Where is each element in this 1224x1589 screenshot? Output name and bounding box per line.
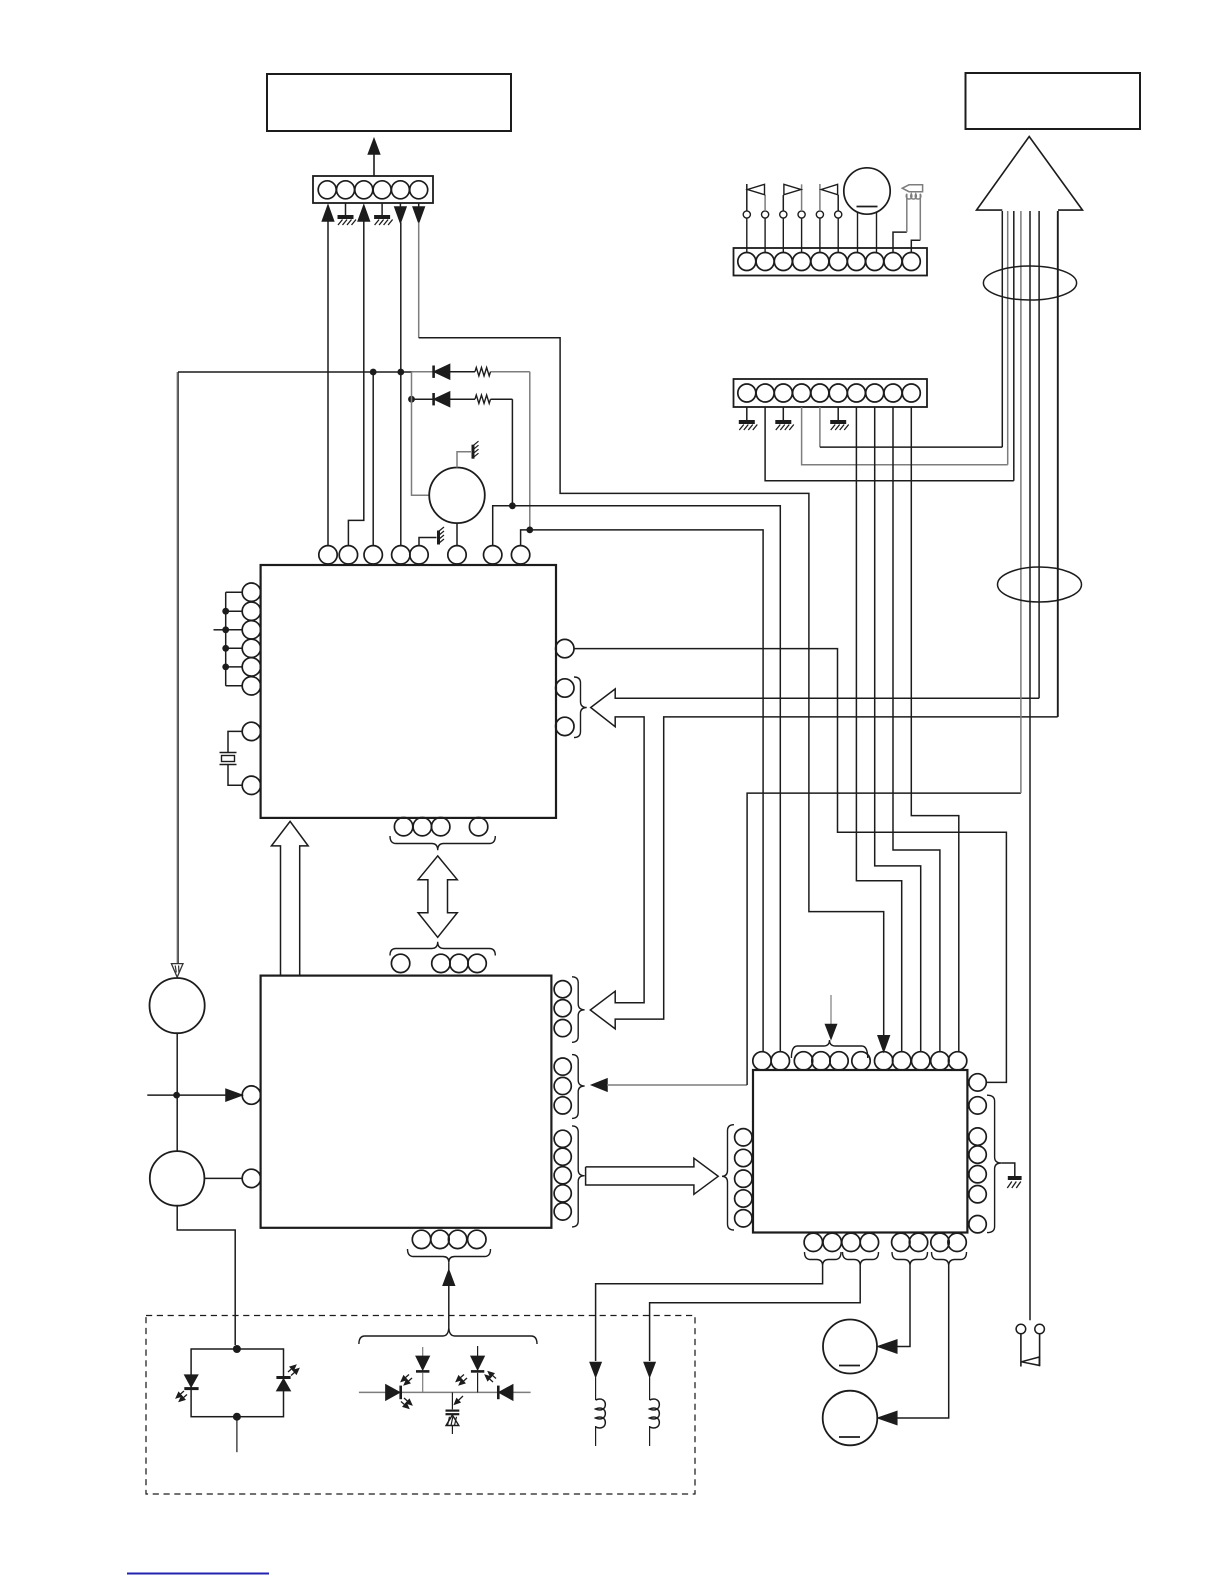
mic pin stems (857, 213, 859, 253)
arrow into coil L3 (644, 1363, 655, 1377)
speaker SP1 (823, 1320, 877, 1374)
junction node B (397, 369, 404, 376)
IC3 right pin R1 (969, 1074, 986, 1091)
ground at IC3 right (1008, 1176, 1022, 1180)
cable tie ellipse 2 (998, 567, 1082, 602)
striped arrow into M1 (171, 964, 183, 978)
feed wire into motor M1 (176, 372, 178, 963)
arrow from connector to display block (373, 154, 375, 176)
CN2 pin4 wire to bus (802, 407, 1008, 465)
wire M2 to LED pair block (177, 1206, 235, 1345)
arrow into SP1 (878, 1340, 897, 1353)
LED D6 (down) (422, 1347, 424, 1357)
IC3 driver IC (753, 1070, 967, 1233)
hollow arrow IC2 to IC1 (271, 821, 308, 975)
CN2 pin6 ground (837, 407, 839, 422)
bus shaft right edge (1057, 211, 1059, 717)
wire group B to bus riser (747, 793, 1021, 1085)
CN1 pin5 signal arrow down (399, 203, 401, 208)
wire CN1 pin5 to IC1 pin T4 (400, 223, 402, 546)
switch S1 contacts (1016, 1324, 1026, 1334)
crystal X1 wiring (228, 731, 242, 752)
key input stub (214, 629, 226, 631)
brace above LED cluster (359, 1327, 537, 1345)
arrow into coil L2 (590, 1363, 601, 1377)
junction at M1-M2 rail (173, 1092, 180, 1099)
brace at IC2 group A (572, 977, 585, 1043)
bus riser from CN2 pin4 (1007, 211, 1009, 465)
wire CN1 pin1 to IC1 pin T1 (327, 221, 329, 546)
brace at IC1 right pins (574, 677, 587, 738)
IC1 pin T8 net to IC3 T1 (521, 530, 764, 1052)
inductor L1 (906, 194, 921, 199)
branch2 wire (412, 398, 434, 400)
LED cluster rail (359, 1391, 531, 1393)
arrowhead into IC3 pin T7 (878, 1036, 889, 1052)
connector CN3 pins 1-10 (738, 253, 756, 271)
crystal X1 (220, 752, 237, 754)
IC1 right pin R1 (556, 639, 574, 657)
wire IC3 B3-4 to coil L3 (650, 1266, 861, 1361)
top node of LED pair (233, 1345, 241, 1353)
IC3 right pins group (969, 1097, 986, 1114)
coil L3 (649, 1378, 651, 1401)
junction on IC1 pin T8 net (526, 527, 533, 534)
connector CN1 body (313, 176, 433, 203)
connector CN2 pins 1-10 (738, 384, 756, 402)
IC1 system controller (261, 565, 556, 818)
microphone symbol (844, 168, 890, 214)
ground wire from IC3 right brace (1001, 1163, 1015, 1177)
brace under IC2 bottom pins (408, 1249, 491, 1262)
LED D5 (right-pointing) (386, 1385, 400, 1400)
bus double arrow IC1-IC2 (418, 856, 457, 937)
motor M2 (150, 1151, 205, 1206)
gray arrow into IC3 brace (830, 995, 832, 1025)
IC2 top pins (391, 954, 409, 972)
connector CN1 pins 1-6 (318, 181, 336, 199)
IC2 left pins (242, 1086, 260, 1104)
arrow into SP2 (878, 1412, 897, 1425)
switch S1 actuator (1021, 1357, 1039, 1365)
CN1 pin2 ground (345, 203, 347, 217)
brace under IC3 pins B5-B6 (892, 1252, 928, 1266)
M0 bottom stub to IC1 pin T6 (456, 523, 458, 545)
IC2 right pins group A (554, 981, 571, 998)
IC2 signal processor (261, 976, 552, 1228)
sensor stub (147, 1094, 226, 1096)
bus riser B (1057, 211, 1059, 717)
IC1 pin R1 net to IC3 R1 (574, 649, 1006, 1083)
IC1 left pins (242, 583, 260, 601)
brace under IC1 bottom pins (390, 836, 495, 850)
motor M1 (150, 978, 205, 1033)
branch2 junction (408, 396, 415, 403)
big bus arrow outline (977, 137, 1083, 211)
wire LED cluster to IC2 (448, 1286, 450, 1327)
IC1 bottom pins (394, 818, 412, 836)
bus riser A (1038, 211, 1040, 698)
LED pair loop (191, 1349, 283, 1417)
IC1 crystal pins (242, 722, 260, 740)
CN3 pin9 wire to inductor (893, 232, 907, 252)
CN2 pin3 ground (782, 407, 784, 422)
system block (top right) (966, 73, 1141, 129)
brace at IC3 left pins (722, 1125, 734, 1230)
wire CN1 pin3 to IC1 pin T2 (348, 221, 363, 546)
wire IC3 B5-6 to speaker SP1 (898, 1266, 911, 1347)
brace above IC2 top pins (390, 942, 495, 956)
IC3 top pins (753, 1052, 771, 1070)
cable tie ellipse 1 (983, 266, 1076, 300)
CN1 pin4 ground (381, 203, 383, 217)
CN2 pin5 wire to bus (819, 407, 821, 447)
wire IC3 B1-2 to coil L2 (596, 1266, 823, 1361)
brace under IC3 pins B3-B4 (843, 1252, 879, 1266)
CN2 pin8 wire to IC3 pin T9 (875, 407, 921, 1052)
bottom node of LED pair (233, 1413, 241, 1421)
switch S1 poles (1020, 1334, 1022, 1367)
IC2 bottom pins (412, 1230, 430, 1248)
wire node A to IC1 pin T3 (372, 372, 374, 546)
branch1 drop wire (529, 372, 531, 530)
plug symbol (902, 185, 922, 192)
CN2 pin7 wire to IC3 pin T8 (856, 407, 901, 1052)
bus riser from CN2 pin5 (arrow shaft edge) (1001, 211, 1003, 447)
photodiode D9 (451, 1392, 453, 1409)
diode D2 (432, 393, 435, 405)
bus riser from CN2 pin2 (1013, 211, 1015, 481)
diode D1 (432, 366, 435, 378)
LED D3 (left, down) (185, 1375, 198, 1387)
horizontal net to motor driver row (178, 371, 412, 373)
remote jack symbol 2 (782, 195, 784, 211)
IC1 right pins R2 R3 (556, 679, 574, 697)
CN2 pin10 wire to IC3 pin T11 (911, 407, 959, 1052)
remote jack symbol 1 (746, 184, 748, 211)
bus junction dots (222, 608, 229, 615)
chassis ground flag at M0 (472, 445, 475, 459)
connector CN3 body (734, 248, 928, 276)
IC1 left pin bus (225, 592, 227, 686)
IC2 right pins group C (554, 1130, 571, 1147)
M0 top stub to chassis flag (457, 452, 471, 468)
CN3 pin10 wire to inductor (911, 240, 920, 252)
LED pair bottom stub (236, 1417, 238, 1453)
arrow into IC2 group B (592, 1079, 607, 1091)
resistor R2 (475, 395, 491, 403)
brace at IC3 right pins (987, 1095, 1001, 1232)
IC3 left pins (735, 1129, 752, 1146)
wire left rail down to motor M1 (177, 372, 179, 965)
connector CN2 body (734, 379, 928, 407)
speaker SP2 (823, 1391, 878, 1446)
CN1 pin3 signal arrow up (358, 206, 369, 222)
LED D8 (left-pointing) (497, 1386, 500, 1400)
IC1 pin T5 jog to chassis flag (419, 538, 437, 546)
CN1 pin1 signal arrow up (322, 206, 333, 222)
brace at IC2 group B (572, 1055, 585, 1119)
IC1 pin T7 net to IC3 T2 (493, 506, 781, 1052)
CN1 pin6 signal arrow down (418, 203, 420, 208)
gray rail to motor M0 (412, 372, 430, 495)
CN2 pin1 ground (746, 407, 748, 422)
hollow bus arrow IC2 to IC3 (586, 1158, 719, 1194)
LED D7 (down) (477, 1346, 479, 1357)
chassis ground flag at IC1 pin T5 (437, 531, 440, 545)
brace under IC3 pins B1-B2 (805, 1252, 842, 1266)
motor M0 (429, 468, 485, 524)
branch1 wire (412, 371, 434, 373)
junction node A (370, 369, 377, 376)
remote jack symbol 3 (819, 184, 821, 211)
coil L2 (595, 1378, 597, 1401)
CN3 pin stems with test points (746, 218, 748, 252)
optical block outline (dashed) (146, 1316, 695, 1495)
branch2 drop wire (511, 399, 513, 506)
brace above IC3 pins T3-T6 (791, 1040, 867, 1058)
wire M1 to M2 (176, 1033, 178, 1151)
CN2 pin9 wire to IC3 pin T10 (893, 407, 940, 1052)
arrow into IC2 pin L1 (226, 1089, 242, 1101)
hollow bus arrow into IC1 right (590, 689, 1057, 1029)
wire M2 to IC2 pin L2 (204, 1177, 242, 1179)
brace under IC3 pins B7-B8 (932, 1252, 967, 1266)
junction on IC1 pin T7 net (509, 502, 516, 509)
brace at IC2 group C (572, 1126, 585, 1227)
CN2 pin2 wire to bus (765, 407, 1014, 481)
IC3 bottom pins (804, 1233, 822, 1251)
LCD display block (267, 74, 511, 131)
LED D4 (right, up) (276, 1376, 290, 1379)
footer link underline (127, 1573, 269, 1575)
IC2 right pins group B (554, 1058, 571, 1075)
resistor R1 (475, 368, 491, 376)
wire CN1 pin6 to IC3 pin T7 (long) (418, 223, 420, 338)
wire IC3 B7-8 to speaker SP2 (898, 1266, 949, 1418)
IC1 top pins (319, 546, 337, 564)
bus riser C (1020, 211, 1022, 793)
bus riser D to switch (1029, 211, 1031, 1320)
